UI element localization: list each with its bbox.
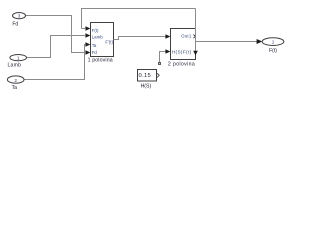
svg-text:1 polovina: 1 polovina — [88, 58, 113, 64]
constant output chevron — [157, 73, 159, 77]
wire trigger vertical — [195, 9, 197, 52]
svg-text:F(t): F(t) — [92, 28, 99, 33]
constant block 0.15 — [138, 70, 157, 82]
wire feedback top — [82, 9, 196, 29]
wire Ta — [24, 45, 85, 80]
inport oval 2 Ta — [7, 76, 24, 83]
arrowhead into block1 in3 — [85, 42, 90, 47]
block2 output chevron — [193, 34, 195, 38]
inport oval 3 Fd — [13, 13, 26, 19]
wire Fd — [26, 16, 86, 53]
unconnected wire end — [159, 63, 161, 65]
arrowhead into block2 in1 — [165, 34, 170, 39]
svg-text:Lamb: Lamb — [7, 63, 21, 69]
wire Lamb — [27, 36, 86, 58]
inport oval 1 Lamb — [10, 55, 27, 61]
arrowhead into outport — [257, 39, 263, 44]
subsystem block1 1 polovina — [91, 23, 114, 57]
svg-text:Fd: Fd — [12, 22, 18, 28]
svg-text:1: 1 — [272, 40, 275, 45]
svg-text:1: 1 — [17, 56, 20, 61]
svg-text:F'(t): F'(t) — [105, 40, 113, 45]
svg-text:Fd: Fd — [92, 50, 98, 55]
svg-text:Ta: Ta — [92, 43, 97, 48]
svg-text:H(S)F(t): H(S)F(t) — [172, 49, 192, 54]
arrowhead into block2 in2 — [165, 49, 170, 54]
svg-text:Ta: Ta — [12, 85, 18, 91]
subsystem block2 2 polovina — [171, 29, 196, 60]
outport oval 1 F(t) — [262, 38, 284, 46]
wire dangling to block2 in2 — [160, 52, 166, 64]
arrowhead into block1 in1 — [85, 26, 90, 31]
svg-text:Lamb: Lamb — [92, 34, 104, 39]
svg-text:3: 3 — [18, 14, 21, 19]
arrowhead into block1 in2 — [85, 33, 90, 38]
arrowhead into block1 in4 — [85, 50, 90, 55]
arrowhead trigger down — [193, 51, 198, 56]
svg-text:2 polovina: 2 polovina — [168, 61, 195, 67]
svg-text:2: 2 — [14, 78, 17, 83]
svg-text:F(t): F(t) — [269, 48, 277, 54]
wire block2 output to outport — [196, 41, 258, 43]
wire block1 output to block2 in1 — [114, 37, 166, 40]
wire feedback stub into block1 in1 — [82, 28, 86, 30]
svg-text:0.15: 0.15 — [139, 73, 151, 79]
svg-text:Out1: Out1 — [181, 34, 192, 39]
svg-text:H(S): H(S) — [141, 84, 152, 90]
